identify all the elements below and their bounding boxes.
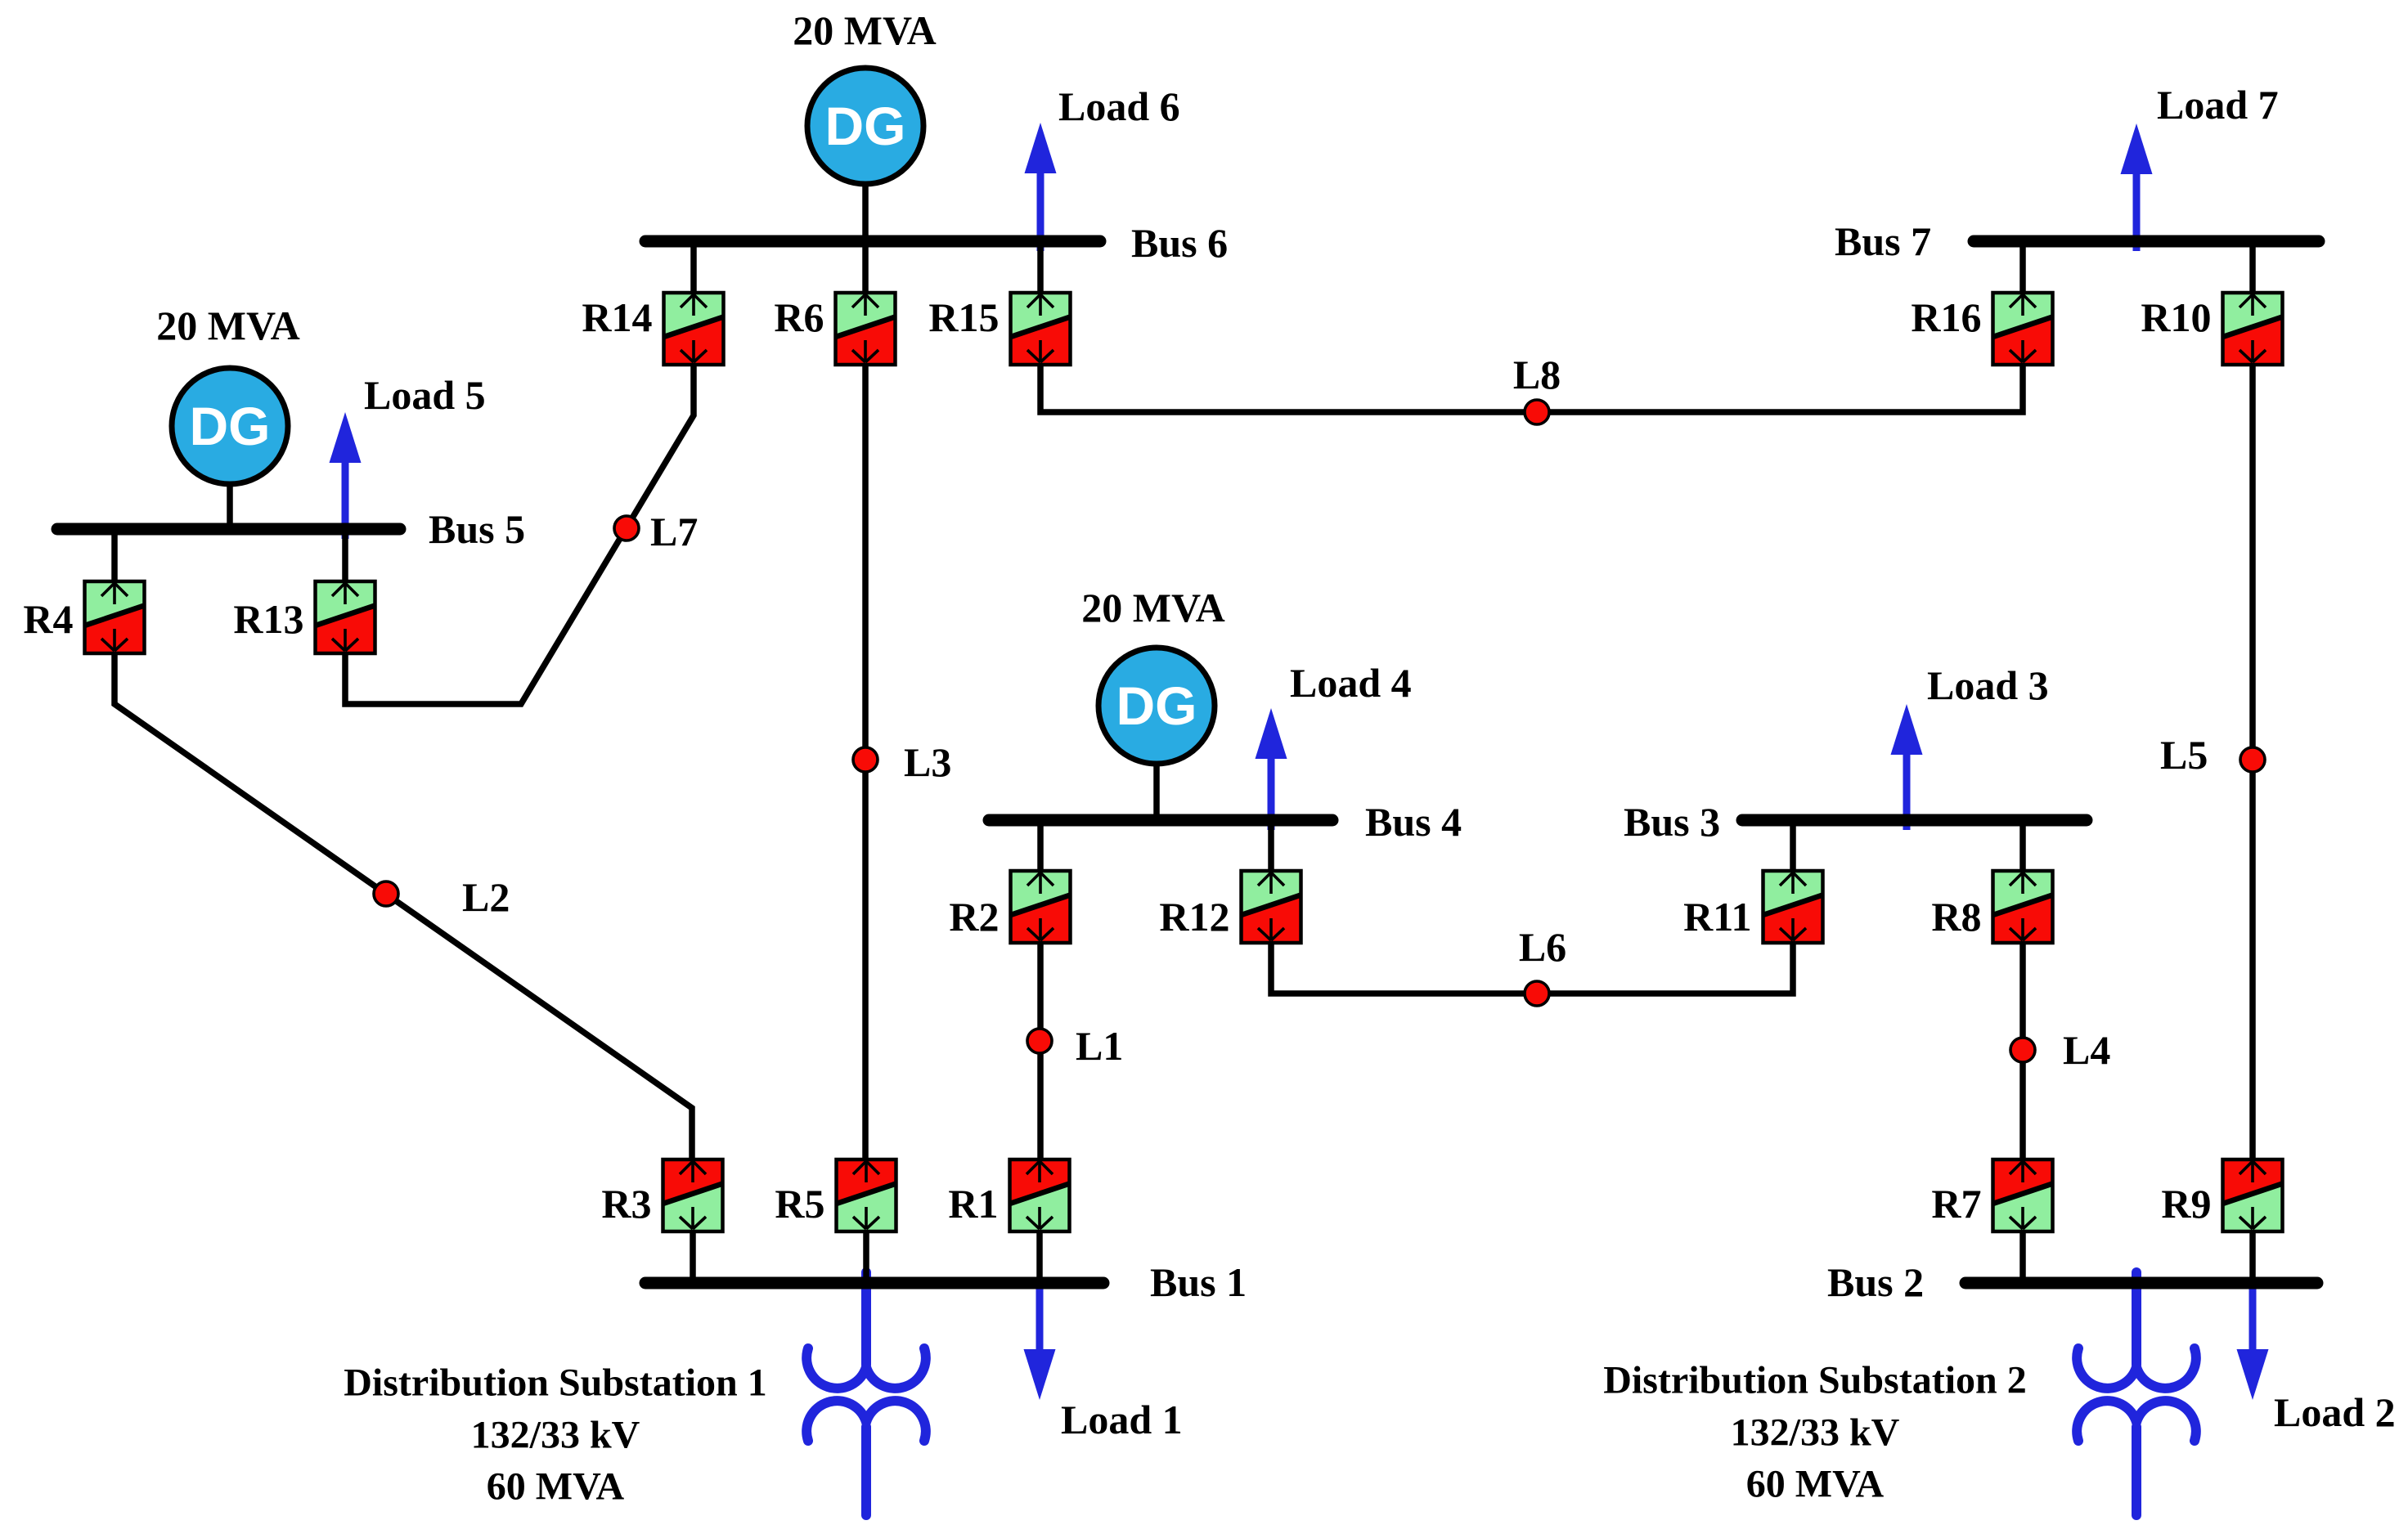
svg-text:DG: DG — [190, 396, 271, 456]
svg-text:DG: DG — [825, 96, 906, 156]
svg-text:Load 6: Load 6 — [1058, 83, 1180, 129]
svg-text:L4: L4 — [2063, 1027, 2110, 1073]
svg-text:R5: R5 — [775, 1181, 824, 1227]
svg-text:L2: L2 — [462, 874, 510, 920]
svg-text:Bus 4: Bus 4 — [1365, 799, 1462, 845]
svg-text:R16: R16 — [1911, 294, 1981, 340]
svg-text:Bus 3: Bus 3 — [1624, 799, 1720, 845]
svg-text:60 MVA: 60 MVA — [1746, 1463, 1885, 1506]
svg-text:20 MVA: 20 MVA — [156, 303, 299, 348]
svg-text:R13: R13 — [233, 596, 303, 642]
svg-text:R3: R3 — [601, 1181, 651, 1227]
svg-text:132/33 kV: 132/33 kV — [471, 1414, 640, 1457]
svg-text:20 MVA: 20 MVA — [793, 7, 936, 53]
svg-text:R12: R12 — [1159, 894, 1229, 940]
svg-text:R14: R14 — [582, 294, 652, 340]
svg-text:Bus 1: Bus 1 — [1150, 1259, 1247, 1305]
svg-text:L8: L8 — [1513, 352, 1561, 397]
svg-text:Bus 6: Bus 6 — [1131, 220, 1228, 266]
svg-text:R15: R15 — [928, 294, 999, 340]
svg-text:R2: R2 — [949, 894, 999, 940]
svg-text:R4: R4 — [23, 596, 73, 642]
svg-text:R1: R1 — [948, 1181, 998, 1227]
svg-text:Load 1: Load 1 — [1061, 1397, 1183, 1442]
svg-text:L7: L7 — [650, 509, 698, 554]
svg-text:Load 4: Load 4 — [1290, 660, 1412, 706]
svg-text:Bus 5: Bus 5 — [429, 506, 525, 552]
svg-text:R10: R10 — [2141, 294, 2211, 340]
svg-text:Load 2: Load 2 — [2274, 1389, 2396, 1435]
svg-text:Bus 2: Bus 2 — [1827, 1259, 1924, 1305]
svg-text:L1: L1 — [1076, 1023, 1123, 1069]
svg-text:L5: L5 — [2160, 732, 2208, 778]
svg-text:R9: R9 — [2161, 1181, 2211, 1227]
svg-text:Load 7: Load 7 — [2157, 82, 2279, 128]
svg-text:R11: R11 — [1683, 894, 1751, 940]
svg-text:DG: DG — [1116, 675, 1197, 736]
svg-text:Load 3: Load 3 — [1927, 662, 2049, 708]
svg-text:Distribution Substation 2: Distribution Substation 2 — [1603, 1359, 2026, 1402]
svg-text:R7: R7 — [1931, 1181, 1981, 1227]
svg-text:L6: L6 — [1519, 924, 1566, 970]
svg-text:Bus 7: Bus 7 — [1835, 218, 1931, 264]
svg-text:Load 5: Load 5 — [364, 372, 486, 418]
svg-text:132/33 kV: 132/33 kV — [1731, 1411, 1900, 1455]
svg-text:L3: L3 — [904, 739, 951, 785]
svg-text:20 MVA: 20 MVA — [1081, 585, 1224, 630]
svg-text:R8: R8 — [1931, 894, 1981, 940]
svg-text:60 MVA: 60 MVA — [487, 1465, 625, 1509]
svg-text:Distribution Substation 1: Distribution Substation 1 — [344, 1361, 766, 1405]
svg-text:R6: R6 — [774, 294, 824, 340]
